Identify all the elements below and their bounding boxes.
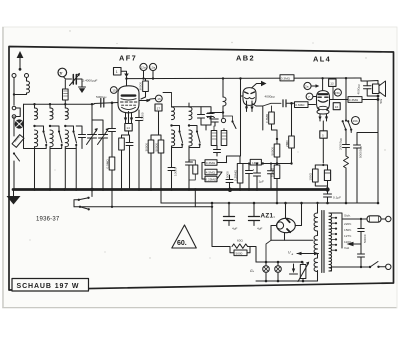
circle 7	[306, 93, 313, 100]
svg-text:5000: 5000	[236, 251, 243, 255]
osc top bridge wire	[172, 107, 212, 113]
AB2 feed wire from rail	[222, 77, 224, 79]
switch arm antenna	[13, 152, 15, 154]
voltage selector bracket	[329, 213, 342, 248]
wire resistor to rail	[64, 100, 66, 104]
AVC chain resistor lower	[274, 165, 280, 179]
svg-text:4.5MΩ: 4.5MΩ	[206, 171, 216, 175]
svg-text:1MΩ: 1MΩ	[252, 161, 259, 165]
AB2 top arrow to rail	[252, 84, 262, 89]
AB2 IF coil	[223, 97, 226, 106]
electrolytic 50uF cathode	[327, 165, 329, 170]
volume potentiometer vertical	[237, 164, 243, 184]
svg-text:220V.: 220V.	[344, 222, 352, 226]
trimmer pair below osc2	[188, 146, 190, 162]
wire down to resistor	[13, 117, 15, 137]
svg-text:0.1μF: 0.1μF	[333, 196, 341, 200]
mains wire to fuse	[342, 218, 367, 220]
phono socket M	[15, 120, 23, 128]
svg-text:0.25MΩ: 0.25MΩ	[233, 169, 237, 181]
svg-text:50000: 50000	[154, 143, 158, 152]
mains double-pole switch	[91, 190, 93, 197]
svg-text:AZ1.: AZ1.	[261, 213, 276, 220]
wire coil bottom to left rail	[14, 93, 27, 95]
transformer primary winding	[329, 213, 332, 271]
wire speaker return branch	[357, 133, 378, 140]
svg-text:1: 1	[116, 70, 118, 74]
wire antenna coil top	[26, 78, 28, 82]
coil-bank top rail	[24, 103, 95, 105]
AF7 anode	[122, 94, 135, 96]
variable gang capacitor 1	[91, 104, 93, 134]
tuning chain 3: wire	[64, 104, 66, 108]
circle 15	[110, 87, 117, 94]
heater line	[74, 206, 212, 208]
dual capacitor 50	[210, 113, 223, 114]
capacitor 5000 det	[216, 146, 218, 150]
osc coil chain 2 top wire	[188, 103, 190, 107]
anode wire AL4	[330, 99, 348, 101]
heater zigzag resistor	[232, 244, 248, 248]
B+ line	[161, 202, 378, 204]
AF7 grid row 2	[122, 104, 136, 106]
transformer core	[321, 211, 323, 273]
svg-text:0.3MΩ: 0.3MΩ	[270, 167, 274, 177]
mains switch	[369, 266, 371, 268]
jack terminal 1	[12, 106, 16, 110]
wire chain1 to bus	[34, 147, 36, 190]
resistor pair below AB2 coil	[211, 131, 217, 146]
resistor 0.3M grid leak AB2	[269, 112, 275, 124]
secondary bottom stub	[317, 271, 319, 282]
resistor 30000 vertical lower	[151, 111, 159, 140]
big node on bus	[228, 188, 232, 192]
stepped wire to volume pot	[217, 156, 240, 163]
box 13	[329, 79, 336, 86]
AF7 control grid dashes	[121, 101, 137, 103]
switch 3	[65, 126, 73, 131]
resistor 0.25M horizontal	[205, 176, 217, 182]
svg-text:4000μμ: 4000μμ	[265, 95, 276, 99]
svg-text:0.25MΩ: 0.25MΩ	[205, 178, 217, 182]
svg-text:AB2: AB2	[236, 54, 255, 63]
dial lamp rail	[256, 261, 303, 263]
svg-text:0.3MΩ: 0.3MΩ	[265, 113, 269, 123]
coil L1 antenna	[27, 81, 30, 93]
circle 16b	[352, 117, 360, 125]
secondary top stub	[317, 203, 319, 213]
riser padder to heater line	[194, 190, 196, 207]
resistor 5000 heater	[234, 250, 247, 256]
padder cap 1	[200, 107, 202, 115]
selector arrow	[353, 243, 361, 245]
resistor 30000 screen	[145, 79, 147, 81]
wire box1 to rail	[121, 71, 127, 78]
svg-text:Gₖ: Gₖ	[250, 269, 255, 273]
svg-text:15: 15	[112, 89, 116, 93]
capacitor det bypass	[226, 179, 233, 181]
cathode chain AL4	[322, 121, 324, 131]
AB2 grid feed from osc	[240, 79, 242, 157]
padder cap 2 curved	[208, 112, 215, 114]
mains terminal bottom	[386, 264, 391, 269]
padding capacitor fixed	[76, 126, 82, 135]
trimmer capacitor antenna	[72, 75, 74, 85]
svg-text:50000μμ: 50000μμ	[359, 146, 363, 158]
dial lamp 1	[265, 262, 267, 266]
coil lower 2	[50, 130, 53, 147]
svg-text:127V.: 127V.	[344, 234, 352, 238]
svg-text:3: 3	[253, 168, 255, 172]
svg-text:150Ω: 150Ω	[309, 172, 313, 180]
box terminal 1	[114, 68, 122, 76]
capacitor 0.1uF below bus	[327, 190, 329, 195]
detector output wire	[252, 104, 263, 131]
svg-text:16: 16	[157, 97, 161, 101]
AB2 cathode arcs	[245, 98, 255, 99]
wire Tr bottom to resistor	[64, 80, 66, 89]
AZ1 anodes	[287, 219, 290, 222]
lamp return rail	[256, 280, 318, 282]
AB2 leads	[246, 101, 248, 112]
antenna terminal right	[25, 74, 29, 78]
svg-text:14: 14	[126, 126, 130, 130]
AVC chain resistor upper	[276, 138, 278, 140]
switch 1	[35, 126, 44, 131]
wire 2a arrow	[311, 85, 317, 87]
coil lower 3	[65, 130, 68, 147]
transformer secondary winding	[314, 213, 317, 272]
svg-text:4000μμ: 4000μμ	[357, 84, 361, 95]
svg-text:10000: 10000	[141, 112, 145, 121]
AZ1 wiring right	[295, 203, 301, 226]
circle 12a	[140, 63, 147, 70]
svg-text:30000: 30000	[139, 82, 143, 91]
AZ1 bottom wire	[271, 239, 313, 241]
grid wire with cap 5000	[94, 103, 118, 104]
svg-text:12a: 12a	[141, 66, 146, 70]
switch arm AL4 b	[348, 122, 351, 130]
mains bottom wire	[329, 267, 370, 271]
triangle mark 60	[172, 225, 197, 248]
AL4 leads	[319, 114, 321, 121]
mains filter cap 1	[360, 219, 362, 229]
AZ1 heater lead	[284, 233, 286, 241]
coil upper 2	[50, 108, 53, 119]
tube AF7 envelope	[118, 86, 139, 113]
svg-text:13a: 13a	[150, 66, 155, 70]
mains filter cap 2	[360, 244, 362, 254]
resistor 150ohm cathode	[314, 165, 316, 169]
svg-text:60.: 60.	[177, 240, 187, 247]
osc coil 1 upper	[172, 107, 175, 120]
filter cap 4uF no1	[228, 203, 230, 217]
capacitor 10000 anode	[138, 110, 140, 118]
circle Tr	[58, 68, 67, 77]
svg-text:2a: 2a	[305, 85, 309, 89]
circle 16	[155, 95, 162, 102]
wire rail to AL4 top	[321, 77, 323, 79]
svg-text:4μF: 4μF	[257, 227, 263, 231]
AL4 grids	[318, 96, 328, 98]
main ground bus	[13, 188, 328, 191]
jack terminal 2	[12, 115, 16, 119]
switch AB2	[231, 120, 233, 122]
AF7 cathode	[122, 107, 136, 109]
osc coil 1 lower	[172, 130, 175, 146]
circle 13a	[149, 63, 156, 70]
AL4 base	[318, 106, 327, 109]
svg-text:0.3MΩ: 0.3MΩ	[349, 98, 359, 102]
coil lower 1	[35, 130, 38, 147]
resistor 50000 vertical	[63, 89, 69, 100]
AB2 diode plates	[245, 92, 249, 94]
capacitor AF coupling 1	[248, 164, 250, 171]
svg-text:Sich.: Sich.	[344, 214, 351, 218]
svg-text:5W: 5W	[379, 99, 383, 104]
resistor 2M vertical	[291, 103, 293, 136]
svg-text:17: 17	[157, 107, 161, 111]
antenna terminal left	[12, 74, 16, 78]
svg-text:2:4000μμF: 2:4000μμF	[83, 79, 98, 83]
speaker loop top	[361, 78, 367, 81]
resistor 4.5M horizontal	[205, 169, 217, 175]
box 16 AL4	[333, 103, 340, 110]
box 14 cathode	[128, 112, 130, 124]
svg-text:5: 5	[322, 133, 324, 137]
resistor grid AL4 horizontal	[295, 102, 309, 108]
rectifier AZ1 envelope	[277, 218, 296, 232]
riser to bus	[111, 190, 113, 207]
title box SCHAUB 197 W	[12, 279, 89, 292]
jack link wire	[16, 108, 20, 117]
svg-text:a: a	[292, 252, 294, 256]
svg-text:150V.: 150V.	[344, 228, 352, 232]
svg-text:7: 7	[308, 95, 310, 99]
wire Tr to trimmer	[64, 77, 72, 79]
tuning chain 2: wire	[49, 104, 51, 108]
primary taps	[332, 217, 337, 219]
switch chain right of AL4	[345, 77, 347, 79]
bus end node	[325, 187, 329, 191]
terminal circle small	[221, 118, 225, 122]
ground small	[79, 86, 86, 88]
resistor 0.3M horizontal	[205, 160, 217, 166]
wire anode to 16	[140, 99, 156, 101]
wire rail to AF7 top	[126, 79, 128, 87]
AZ1 wiring left	[271, 226, 277, 241]
switch arm AL4 a	[343, 122, 346, 130]
svg-text:30000: 30000	[144, 143, 148, 152]
svg-text:1936-37: 1936-37	[36, 217, 60, 223]
svg-text:0.5MΩ: 0.5MΩ	[105, 159, 109, 169]
coil upper 3	[65, 108, 68, 119]
wires resistor bank	[225, 161, 227, 163]
cathode RC bracket AL4	[315, 164, 327, 166]
tube AB2 envelope	[243, 88, 256, 106]
svg-text:AL4: AL4	[313, 55, 331, 64]
wire det to diode cap	[263, 103, 281, 106]
antenna symbol	[19, 56, 21, 69]
svg-text:50000: 50000	[270, 147, 274, 156]
wire chain3 to bus	[64, 147, 66, 190]
svg-text:13: 13	[330, 82, 334, 86]
capacitor 50000 right	[356, 139, 358, 145]
AVC branch cap	[111, 103, 113, 129]
mains terminal top	[386, 216, 391, 221]
wire to bus	[13, 161, 15, 190]
heater return wire	[212, 203, 230, 247]
resistor AVC vertical	[109, 157, 115, 170]
svg-text:60Ω: 60Ω	[237, 239, 243, 243]
svg-text:5000: 5000	[226, 171, 230, 178]
svg-text:1μF: 1μF	[259, 180, 265, 184]
resistor 0.3M on rail	[280, 75, 294, 81]
wire 12a to rail	[143, 71, 145, 79]
capacitor AF coupling 2	[256, 164, 258, 174]
svg-text:20000μμ: 20000μμ	[339, 138, 343, 150]
svg-text:2MΩ: 2MΩ	[285, 140, 289, 147]
svg-text:0.3MΩ: 0.3MΩ	[206, 161, 216, 165]
switch 2	[50, 126, 59, 131]
wire trimmer to ground	[76, 79, 82, 87]
box 5	[320, 131, 327, 138]
zigzag resistor tone	[345, 148, 347, 157]
capacitor 20000	[343, 144, 350, 146]
resistor 1M horizontal	[250, 159, 261, 165]
tuning chain 1: wire	[34, 104, 36, 108]
osc switch 1	[172, 126, 180, 132]
capacitor 5000 grid	[100, 99, 102, 108]
resistor 50000 vertical lower	[159, 135, 162, 140]
wire AVC top	[272, 124, 278, 130]
coil upper 1	[35, 108, 38, 119]
capacitor 10000 osc1	[171, 146, 173, 168]
dial lamp 2	[277, 262, 279, 266]
tube AL4 envelope	[317, 91, 330, 114]
svg-text:AF7: AF7	[119, 54, 137, 63]
circle 2a	[304, 82, 311, 89]
osc switch 2	[189, 126, 197, 132]
box 17	[155, 104, 162, 111]
circle 15b	[334, 89, 341, 96]
wire chain2 to bus	[49, 147, 51, 190]
svg-text:0.6MΩ: 0.6MΩ	[295, 103, 305, 107]
svg-text:16b: 16b	[353, 119, 358, 123]
variable gang capacitor 2	[92, 120, 103, 135]
svg-text:4μF: 4μF	[232, 227, 238, 231]
osc coil 2 upper	[189, 107, 192, 120]
osc coil 2 lower	[189, 130, 192, 146]
small box padder	[193, 165, 198, 174]
svg-text:10000: 10000	[174, 167, 178, 176]
wire 13a to rail	[152, 71, 154, 79]
svg-text:SCHAUB 197 W: SCHAUB 197 W	[17, 283, 80, 290]
svg-text:0.3MΩ: 0.3MΩ	[281, 77, 291, 81]
filter cap 4uF no2	[253, 203, 255, 217]
svg-text:15b: 15b	[335, 91, 340, 95]
antenna coupling return	[24, 104, 35, 148]
regulating resistor	[300, 265, 306, 279]
svg-text:16: 16	[335, 105, 339, 109]
ground main	[13, 190, 15, 197]
capacitor cathode	[126, 142, 133, 144]
resistor cathode 1M	[119, 138, 125, 150]
cathode RC pair bracket	[122, 131, 129, 138]
svg-text:50000: 50000	[363, 234, 367, 243]
border frame	[9, 47, 394, 291]
wire switch3 to bus	[75, 149, 77, 190]
riser bus to B+ line	[160, 190, 162, 204]
speaker	[373, 84, 380, 94]
screen supply rail	[127, 77, 362, 80]
wire AF line	[240, 163, 250, 165]
fuse	[367, 216, 381, 222]
wire left rail down	[13, 78, 15, 106]
AL4 anode	[319, 93, 328, 95]
resistor 500ohm diagonal	[11, 134, 24, 148]
ground arrow symbol	[293, 264, 295, 272]
AL4 cathode	[318, 100, 327, 102]
AF7 leads	[125, 113, 127, 123]
capacitor grid AL4	[270, 164, 272, 171]
resistor tone horizontal	[348, 97, 362, 103]
svg-text:Volt: Volt	[344, 246, 349, 250]
